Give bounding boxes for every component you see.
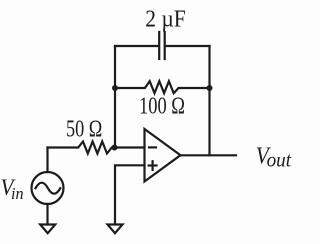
svg-text:out: out <box>267 148 293 172</box>
resistor R1 100 ohm (feedback) with wire <box>115 81 210 93</box>
node junction dot at inverting input <box>112 145 118 151</box>
svg-text:50 Ω: 50 Ω <box>66 116 102 142</box>
svg-text:100 Ω: 100 Ω <box>139 93 185 119</box>
op-amp minus sign (inverting input) <box>149 146 156 148</box>
op-amp U1 triangle <box>145 129 181 182</box>
wire output <box>181 154 237 156</box>
wire top branch left segment <box>115 45 158 47</box>
label Vout <box>256 143 292 172</box>
ground symbol below source <box>40 225 55 234</box>
wire source Vin bottom stem <box>46 204 48 224</box>
wire top branch right segment <box>166 45 210 47</box>
label Vin <box>1 175 24 203</box>
svg-text:in: in <box>11 184 24 203</box>
AC source V1 circle <box>32 172 64 204</box>
node junction dot right of R1 <box>207 85 213 91</box>
wire source Vin top stem <box>46 148 48 173</box>
node junction dot left of R1 <box>112 85 118 91</box>
AC source sine wave <box>36 183 61 194</box>
op-amp plus sign (non-inverting input) <box>149 161 157 170</box>
svg-text:2 µF: 2 µF <box>145 6 186 32</box>
wire left feedback vertical (node A up to top branch) <box>114 46 116 148</box>
capacitor C1 plates <box>159 32 165 59</box>
ground symbol below op-amp <box>108 225 123 234</box>
resistor R2 50 ohm (input) with wire to op-amp inverting input <box>48 142 145 154</box>
wire right feedback vertical (top branch down to output) <box>208 46 210 155</box>
wire non-inverting input to ground <box>115 165 145 224</box>
